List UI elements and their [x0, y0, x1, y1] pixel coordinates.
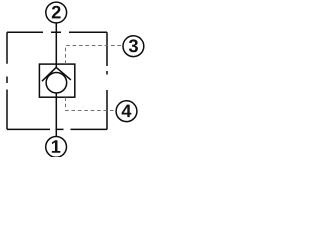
boundary box right edge (chain line) — [106, 32, 108, 129]
check valve ball — [46, 72, 67, 93]
node port 3 circle — [123, 36, 144, 57]
node port 4 circle — [116, 101, 137, 122]
label 1 — [52, 140, 60, 153]
label 4 — [122, 105, 132, 118]
node port 2 circle — [46, 2, 67, 23]
check valve seat V lines — [42, 67, 71, 81]
pilot line to port 3 — [66, 46, 123, 65]
pilot line to port 4 — [66, 97, 116, 110]
wire port2 to valve seat apex — [55, 23, 57, 68]
boundary box top edge (chain line) — [7, 31, 107, 33]
node port 1 circle — [46, 137, 67, 158]
boundary box bottom edge (chain line) — [7, 128, 107, 130]
check valve body square — [39, 64, 74, 97]
label 2 — [52, 6, 61, 19]
wire valve ball to port1 — [55, 92, 57, 136]
boundary box left edge (chain line) — [6, 32, 8, 129]
label 3 — [129, 39, 138, 52]
